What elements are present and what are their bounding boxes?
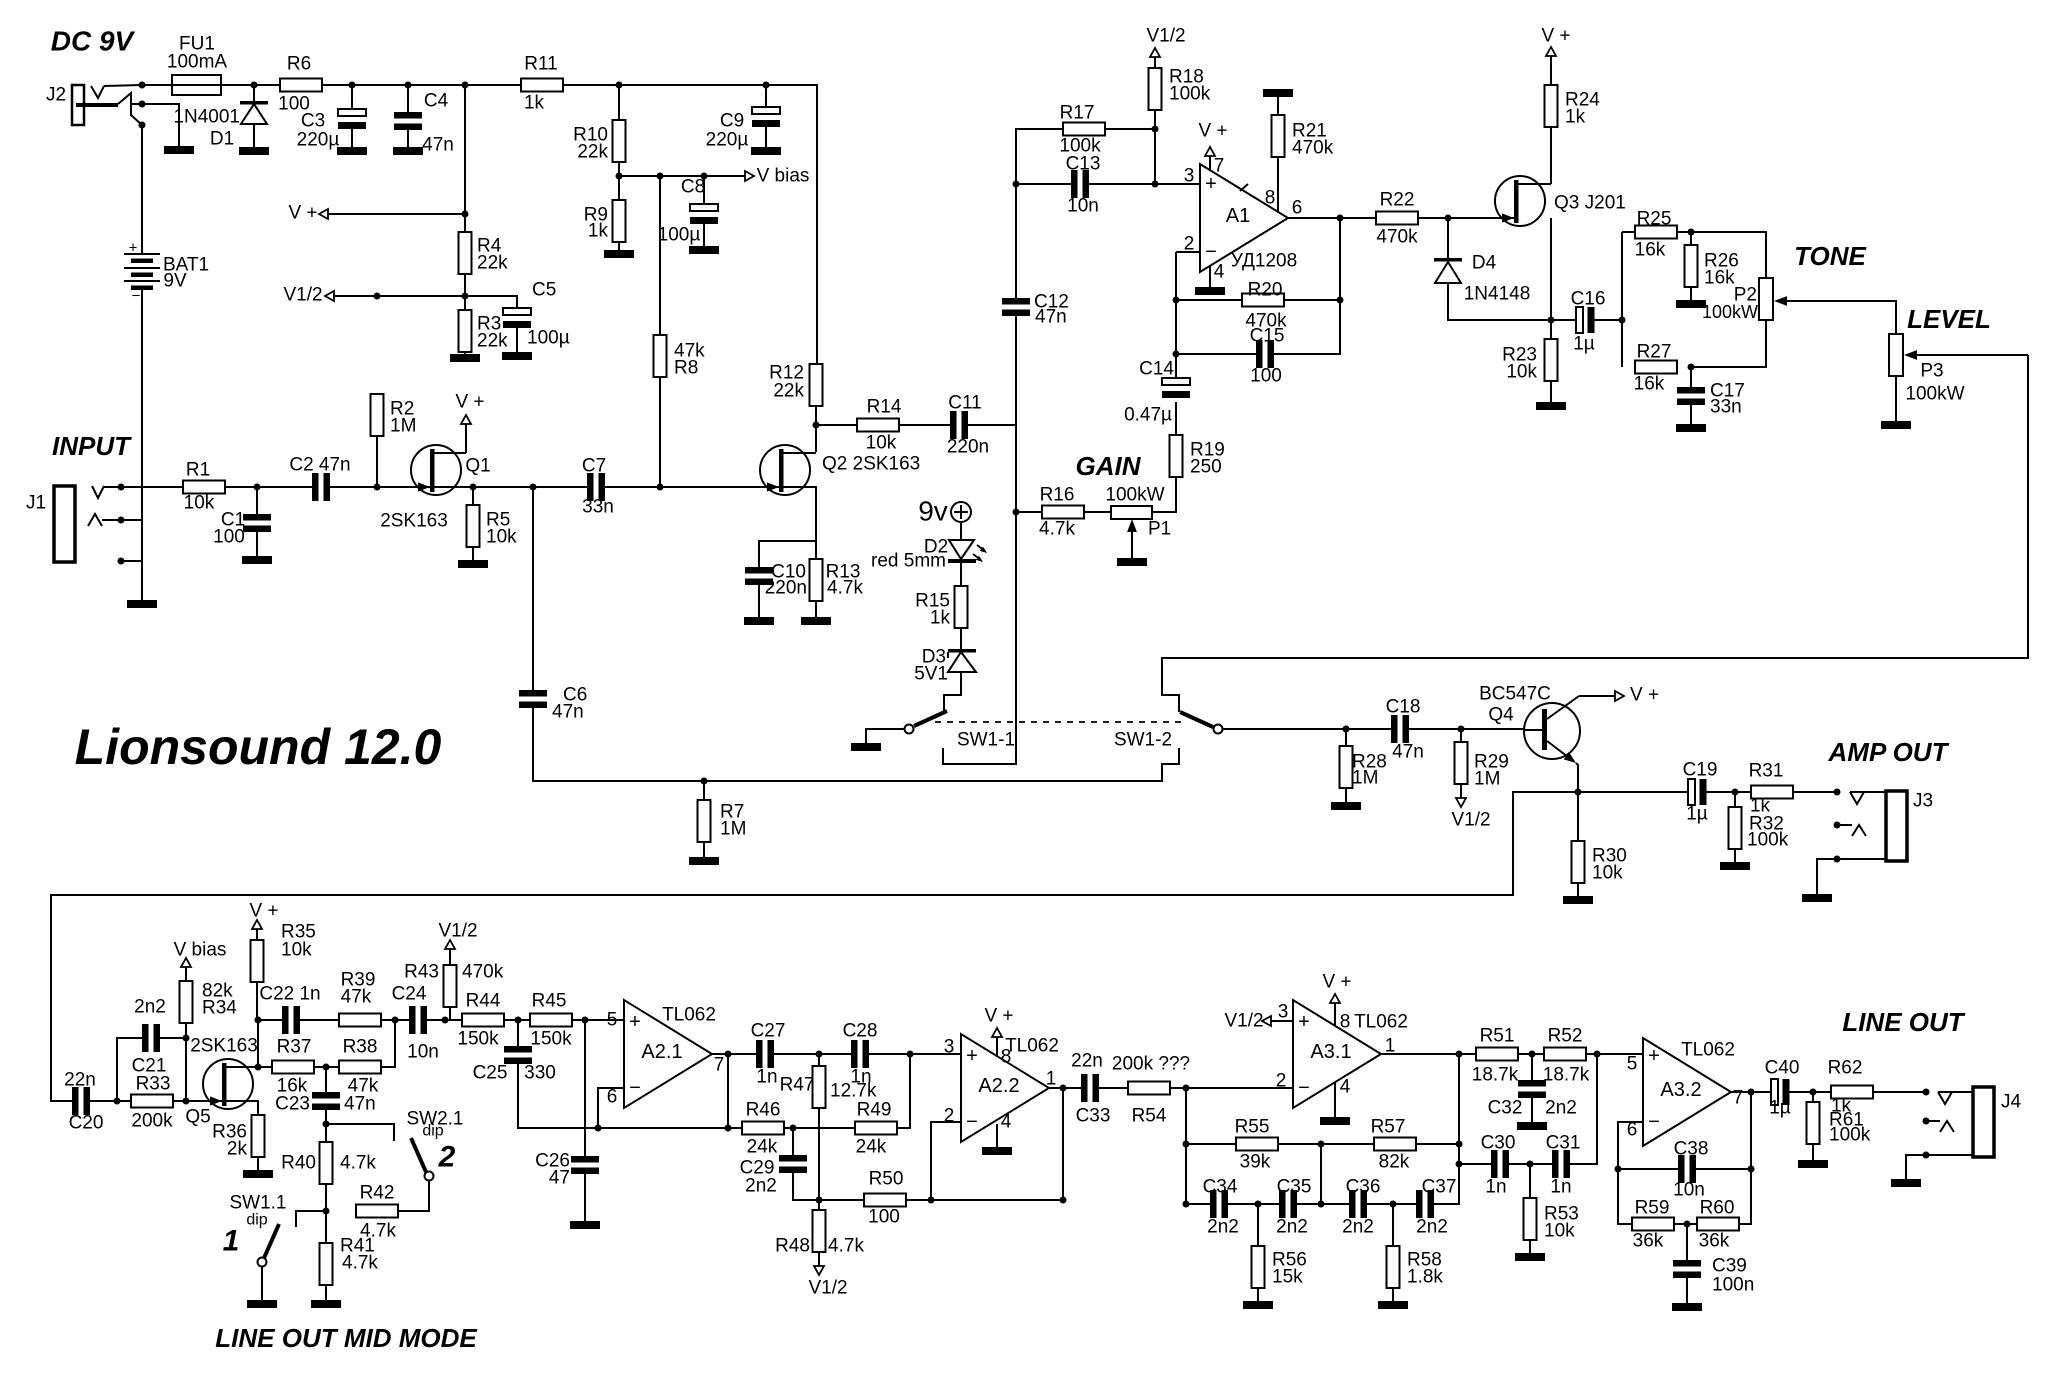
resistor R30	[1572, 841, 1585, 883]
resistor R38	[339, 1061, 381, 1074]
resistor R58	[1387, 1246, 1400, 1288]
junction C13 left	[1013, 181, 1020, 188]
wire C11 to SW1-1 riser	[968, 424, 1016, 426]
capacitor C18 47n	[1391, 715, 1398, 743]
wire R10 R9	[618, 162, 620, 200]
wire R57 right	[1416, 1143, 1459, 1145]
wire R37 R38	[314, 1066, 339, 1068]
svg-text:Q1: Q1	[465, 456, 490, 477]
svg-text:J2: J2	[46, 85, 66, 106]
ground A1 pin4	[1195, 287, 1225, 295]
wire R5 top	[472, 487, 474, 505]
capacitor C3 220u	[338, 109, 366, 116]
node A3.1 V+ arrow	[1330, 994, 1340, 1003]
svg-text:V +: V +	[1541, 26, 1570, 47]
junction C36 R58	[1390, 1201, 1397, 1208]
junction A2.2 fb corner	[1060, 1197, 1067, 1204]
wire C40 right	[1789, 1091, 1831, 1093]
svg-text:C24: C24	[392, 984, 427, 1005]
switch SW1-2 lever	[1180, 712, 1213, 727]
svg-text:C19: C19	[1683, 760, 1718, 781]
svg-text:33n: 33n	[1710, 397, 1742, 418]
ground D1	[239, 147, 269, 155]
resistor R29	[1455, 742, 1468, 784]
wire C11 node riser	[1015, 316, 1017, 425]
capacitor C20 22n	[72, 1087, 79, 1115]
svg-text:C22 1n: C22 1n	[259, 984, 320, 1005]
svg-text:22k: 22k	[477, 253, 508, 274]
svg-text:V +: V +	[455, 392, 484, 413]
svg-text:−: −	[629, 1077, 641, 1099]
wire R4 to V12	[464, 274, 466, 310]
junction J3 tip	[1834, 789, 1841, 796]
svg-text:R27: R27	[1637, 342, 1672, 363]
node 9v supply symbol	[951, 502, 971, 522]
ground R5	[458, 560, 488, 568]
wire R16 line	[1016, 511, 1042, 513]
ground SW1.1	[247, 1300, 277, 1308]
resistor R27	[1635, 361, 1677, 374]
svg-text:100kW: 100kW	[1702, 302, 1758, 322]
junction R55 R57	[1318, 1141, 1325, 1148]
wire A3.1 output	[1381, 1053, 1476, 1055]
svg-text:R38: R38	[343, 1037, 378, 1058]
pin A1 pin8 tick	[1240, 184, 1248, 191]
svg-text:470k: 470k	[462, 962, 504, 983]
svg-text:47n: 47n	[1035, 307, 1067, 328]
resistor R10	[613, 120, 626, 162]
diode D2 LED red	[949, 540, 974, 559]
svg-text:47n: 47n	[344, 1094, 376, 1115]
wire C3 top	[351, 85, 353, 109]
wire R21 to pin8	[1277, 157, 1279, 212]
svg-text:10n: 10n	[1067, 196, 1099, 217]
junction J4 tip	[1923, 1089, 1930, 1096]
junction D4 gate	[1445, 215, 1452, 222]
ground R26	[1676, 300, 1706, 308]
wire A1 pin2 lead	[1176, 251, 1200, 253]
junction R37 C23	[323, 1064, 330, 1071]
svg-text:C13: C13	[1066, 154, 1101, 175]
svg-text:22n: 22n	[64, 1070, 96, 1091]
svg-text:R43: R43	[404, 962, 439, 983]
junction D1 top	[251, 82, 258, 89]
diode D1 1N4001	[240, 101, 268, 105]
capacitor C40 1u	[1771, 1079, 1778, 1105]
resistor R21	[1272, 115, 1285, 157]
svg-text:C39: C39	[1712, 1256, 1747, 1277]
wire A2.1 fb to R46	[598, 1127, 742, 1129]
wire D2 to R15	[960, 563, 962, 586]
wire R49 riser	[897, 1054, 910, 1128]
wire R5 bottom	[472, 547, 474, 560]
svg-text:V +: V +	[1322, 972, 1351, 993]
wire C2 to Q1 gate	[330, 486, 587, 488]
wire C17 bottom	[1690, 405, 1692, 424]
node R48 V1/2 arrow	[814, 1266, 824, 1275]
svg-text:R44: R44	[466, 991, 501, 1012]
resistor R46	[742, 1122, 784, 1135]
wire 9v to D2	[960, 522, 962, 540]
capacitor C33 22n	[1081, 1074, 1088, 1102]
node A1 V+ arrow	[1205, 147, 1215, 156]
wire R22 to Q3 gate	[1418, 217, 1515, 219]
svg-text:SW1.1: SW1.1	[229, 1193, 286, 1214]
svg-text:R50: R50	[869, 1169, 904, 1190]
svg-text:100: 100	[1250, 366, 1282, 387]
wire C1 bottom	[256, 532, 258, 556]
svg-text:150k: 150k	[457, 1029, 499, 1050]
resistor R52	[1544, 1048, 1586, 1061]
resistor R23	[1545, 339, 1558, 381]
resistor R41	[320, 1243, 333, 1285]
svg-text:5: 5	[607, 1010, 618, 1031]
junction Q4 emitter	[1575, 789, 1582, 796]
junction C30 tap	[1456, 1161, 1463, 1168]
svg-text:Q3 J201: Q3 J201	[1554, 193, 1626, 214]
wire Q4 emitter	[1576, 763, 1578, 841]
svg-text:1µ: 1µ	[1686, 804, 1708, 825]
junction C3 top	[349, 82, 356, 89]
svg-text:R37: R37	[277, 1037, 312, 1058]
ground SW1-1	[851, 743, 881, 751]
svg-text:2n2: 2n2	[1416, 1217, 1448, 1238]
wire C22 line	[258, 1019, 282, 1021]
wire V12 to C5	[465, 296, 517, 308]
svg-text:2SK163: 2SK163	[190, 1036, 258, 1057]
junction V12 R2	[374, 293, 381, 300]
svg-text:22k: 22k	[477, 331, 508, 352]
wire C3 bottom	[351, 129, 353, 147]
wire C26 riser	[584, 1020, 586, 1156]
wire R43 bottom	[449, 1007, 451, 1020]
junction C34 R56	[1255, 1201, 1262, 1208]
svg-text:Q2 2SK163: Q2 2SK163	[822, 454, 920, 475]
svg-text:15k: 15k	[1272, 1267, 1303, 1288]
svg-text:4.7k: 4.7k	[1039, 519, 1075, 540]
capacitor C4 47n	[394, 112, 422, 119]
wire R50 left	[819, 1199, 864, 1201]
wire SW1.1 to ground	[261, 1267, 263, 1300]
wire A2.2 output	[1049, 1087, 1081, 1089]
junction A2.2 out	[1060, 1085, 1067, 1092]
resistor R39	[339, 1014, 381, 1027]
wire C23 bottom	[325, 1110, 327, 1142]
resistor R31	[1751, 786, 1793, 799]
junction J2 sleeve	[139, 122, 146, 129]
wire D1 bottom	[253, 124, 255, 147]
wire R32 leads	[1734, 792, 1736, 807]
wire A3.2 output	[1731, 1091, 1771, 1093]
resistor R37	[272, 1061, 314, 1074]
wire C14 to C15 node	[1175, 252, 1177, 378]
svg-text:1N4148: 1N4148	[1464, 284, 1531, 305]
wire R17 right	[1105, 128, 1155, 130]
junction A1 out	[1337, 215, 1344, 222]
svg-text:A2.2: A2.2	[978, 1075, 1019, 1097]
svg-text:3: 3	[1184, 166, 1195, 187]
svg-text:1k: 1k	[1831, 1096, 1852, 1117]
switch SW1-1 lever	[914, 711, 947, 726]
junction V bias	[616, 173, 623, 180]
wire R44 R45	[504, 1019, 530, 1021]
junction R20 left	[1173, 297, 1180, 304]
wire R39 right	[381, 1019, 409, 1021]
junction A2.1 fb	[595, 1125, 602, 1132]
wire R36 bottom	[257, 1157, 259, 1170]
wire C13 line	[1016, 183, 1071, 185]
node V bias arrow	[745, 171, 754, 181]
node A3.1 V1/2 arrow	[1262, 1016, 1271, 1026]
wire C25 top	[517, 1020, 519, 1046]
svg-text:C40: C40	[1765, 1058, 1800, 1079]
svg-text:SW1-2: SW1-2	[1114, 730, 1172, 751]
resistor R1	[183, 481, 225, 494]
wire C6 to SW line	[533, 708, 1179, 781]
wire SW1.1 feed	[296, 1211, 326, 1227]
wire C12 to R17 corner	[1016, 129, 1063, 298]
junction R44 R45 C25	[515, 1017, 522, 1024]
wire R9 bottom	[618, 242, 620, 250]
svg-text:10k: 10k	[281, 940, 312, 961]
wire SW1-1 lower throw	[943, 425, 1016, 764]
wire R10 top	[618, 85, 620, 120]
wire C18 left	[1346, 728, 1391, 730]
node R35 V+ arrow	[252, 920, 262, 929]
ground R13	[801, 617, 831, 625]
svg-text:D1: D1	[210, 129, 234, 150]
svg-text:4.7k: 4.7k	[340, 1153, 376, 1174]
svg-text:C33: C33	[1076, 1106, 1111, 1127]
svg-text:C20: C20	[69, 1113, 104, 1134]
capacitor C12 47n	[1002, 298, 1030, 305]
junction C21 R34	[183, 1035, 190, 1042]
svg-text:47n: 47n	[422, 135, 454, 156]
svg-text:16k: 16k	[1635, 240, 1666, 261]
node Q1 V+ arrow	[461, 415, 471, 424]
wire amp out return	[51, 792, 1578, 1101]
wire C22 to R39	[300, 1019, 339, 1021]
svg-text:C9: C9	[720, 111, 744, 132]
ground C26	[570, 1221, 600, 1229]
wire R43 top	[449, 949, 451, 965]
svg-text:250: 250	[1190, 457, 1222, 478]
wire C36 to C37	[1367, 1203, 1416, 1205]
ground R56	[1243, 1301, 1273, 1309]
capacitor C6 47n	[519, 690, 547, 697]
resistor R3	[459, 310, 472, 352]
capacitor C23 47n	[312, 1092, 340, 1099]
svg-text:V +: V +	[984, 1006, 1013, 1027]
wire C17 top	[1690, 367, 1692, 387]
wire C13 to A1 plus	[1089, 183, 1200, 185]
transistor Q5 2SK163	[203, 1059, 253, 1109]
wire C29 bottom	[793, 1173, 819, 1200]
resistor R53	[1524, 1198, 1537, 1240]
wire R13 top	[815, 541, 817, 559]
wire R25 R27 riser	[1621, 232, 1623, 367]
wire C34 left lead	[1186, 1203, 1210, 1205]
svg-text:LINE OUT: LINE OUT	[1842, 1007, 1965, 1037]
capacitor C27 1n	[756, 1040, 763, 1068]
ground R28	[1331, 802, 1361, 810]
wire C21 right	[160, 1037, 186, 1039]
svg-text:150k: 150k	[530, 1029, 572, 1050]
ground C32	[1517, 1122, 1547, 1130]
junction R40 R41 R42	[323, 1208, 330, 1215]
junction R35 C22	[255, 1017, 262, 1024]
svg-text:C36: C36	[1346, 1177, 1381, 1198]
svg-text:R20: R20	[1248, 280, 1283, 301]
svg-text:C34: C34	[1203, 1177, 1238, 1198]
resistor R54	[1128, 1082, 1170, 1095]
capacitor C8 100u	[690, 204, 718, 211]
ground R32	[1720, 862, 1750, 870]
wire C38 left lead	[1618, 1168, 1678, 1170]
svg-text:D4: D4	[1472, 253, 1497, 274]
junction R20 output	[1337, 297, 1344, 304]
svg-text:2n2: 2n2	[1207, 1217, 1239, 1238]
wire R28 bottom	[1345, 788, 1347, 802]
svg-text:4.7k: 4.7k	[827, 578, 863, 599]
svg-text:22k: 22k	[577, 142, 608, 163]
capacitor C11 220n	[950, 411, 957, 439]
capacitor C29 2n2	[779, 1155, 807, 1162]
wire D1 top	[253, 85, 255, 103]
svg-text:R16: R16	[1040, 485, 1075, 506]
svg-text:1k: 1k	[930, 608, 951, 629]
wire P3 wiper to SW1-2	[1162, 355, 2028, 712]
svg-text:16k: 16k	[1634, 374, 1665, 395]
resistor R57	[1374, 1138, 1416, 1151]
resistor R56	[1252, 1246, 1265, 1288]
junction R17 R18	[1152, 126, 1159, 133]
wire D4 to C16 line	[1448, 283, 1576, 320]
svg-text:INPUT: INPUT	[52, 431, 132, 461]
junction R25 R26	[1688, 229, 1695, 236]
battery BAT1	[124, 253, 160, 255]
svg-text:R52: R52	[1548, 1026, 1583, 1047]
junction R10 top	[616, 82, 623, 89]
capacitor C15 100	[1256, 340, 1263, 368]
svg-text:2n2: 2n2	[1342, 1217, 1374, 1238]
wire R15 to D3	[960, 628, 962, 650]
wire C15 right	[1274, 218, 1340, 354]
svg-text:4: 4	[1001, 1112, 1012, 1133]
svg-text:R14: R14	[867, 397, 902, 418]
wire P1 to R19	[1152, 477, 1176, 512]
svg-text:2n2: 2n2	[1276, 1217, 1308, 1238]
wire R37 left	[258, 1066, 272, 1068]
wire SW1-1 pole to ground	[866, 729, 904, 743]
wire A2.2 fb	[931, 1088, 1063, 1200]
svg-text:24k: 24k	[747, 1137, 778, 1158]
svg-text:V1/2: V1/2	[1451, 810, 1490, 831]
wire C27 to C28	[774, 1053, 851, 1055]
capacitor C37 2n2	[1416, 1190, 1423, 1218]
connector J4 line out jack	[1973, 1087, 1994, 1157]
wire R59 feed	[1618, 1169, 1632, 1224]
wire R31 to J3	[1793, 791, 1837, 793]
svg-text:+: +	[966, 1045, 978, 1067]
svg-text:4: 4	[1214, 262, 1225, 283]
capacitor C35 2n2	[1279, 1190, 1286, 1218]
svg-text:R31: R31	[1749, 761, 1784, 782]
wire C5 bottom	[516, 328, 518, 352]
svg-text:R22: R22	[1380, 190, 1415, 211]
wire R26 bottom	[1690, 287, 1692, 300]
junction C27 R47	[816, 1051, 823, 1058]
wire R62 to J4	[1873, 1091, 1926, 1093]
node Q4 V+ arrow	[1615, 691, 1624, 701]
svg-text:−: −	[1298, 1077, 1310, 1099]
wire R14 left	[816, 424, 857, 426]
wire R29 bottom	[1460, 784, 1462, 799]
wire C33 to R54	[1099, 1087, 1128, 1089]
wire J4 sleeve ground	[1906, 1155, 1926, 1179]
junction R46 left	[725, 1125, 732, 1132]
diode D3 zener 5V1	[948, 649, 976, 653]
resistor R61	[1807, 1102, 1820, 1144]
wire R48 bottom	[818, 1252, 820, 1267]
resistor R60	[1697, 1218, 1739, 1231]
wire Q4 collector to V+	[1579, 695, 1616, 697]
svg-text:+: +	[629, 1011, 641, 1033]
svg-text:+: +	[129, 240, 138, 257]
svg-text:10n: 10n	[407, 1042, 439, 1063]
svg-text:47: 47	[549, 1168, 570, 1189]
svg-text:R49: R49	[857, 1100, 892, 1121]
junction C30 R53	[1527, 1161, 1534, 1168]
svg-text:J3: J3	[1913, 791, 1933, 812]
ground R21 top	[1263, 89, 1293, 97]
svg-text:8: 8	[1340, 1012, 1351, 1033]
svg-text:R62: R62	[1828, 1058, 1863, 1079]
op-amp A3.1	[1293, 1000, 1381, 1108]
svg-text:V +: V +	[1630, 685, 1659, 706]
potentiometer P2 100k	[1759, 278, 1773, 320]
junction R32 top	[1732, 789, 1739, 796]
connector J1 input jack	[54, 486, 75, 562]
junction C38 left	[1615, 1166, 1622, 1173]
svg-text:1: 1	[1046, 1069, 1057, 1090]
junction V bias C7 riser	[657, 173, 664, 180]
svg-text:100: 100	[868, 1207, 900, 1228]
svg-text:C2 47n: C2 47n	[289, 455, 350, 476]
junction R39 C24	[392, 1017, 399, 1024]
wire R23 bottom	[1550, 381, 1552, 402]
svg-text:Q4: Q4	[1488, 705, 1514, 726]
wire R20 right	[1284, 299, 1340, 301]
svg-text:3: 3	[944, 1037, 955, 1058]
svg-text:200k: 200k	[131, 1111, 173, 1132]
svg-text:100µ: 100µ	[527, 328, 570, 349]
resistor R24	[1545, 85, 1558, 127]
capacitor C36 2n2	[1349, 1190, 1356, 1218]
resistor R36	[252, 1115, 265, 1157]
wire C10 bottom	[758, 585, 760, 617]
node V1/2 arrow	[325, 291, 334, 301]
transistor Q4 BC547C	[1524, 703, 1580, 759]
wire C4 bottom	[407, 130, 409, 147]
svg-text:9V: 9V	[163, 271, 187, 292]
svg-text:1N4001: 1N4001	[173, 107, 240, 128]
junction J4 sleeve	[1923, 1152, 1930, 1159]
svg-text:A2.1: A2.1	[641, 1041, 682, 1063]
svg-text:1µ: 1µ	[1573, 334, 1595, 355]
wire C23 top	[325, 1067, 327, 1092]
wire R53 bottom	[1529, 1240, 1531, 1253]
